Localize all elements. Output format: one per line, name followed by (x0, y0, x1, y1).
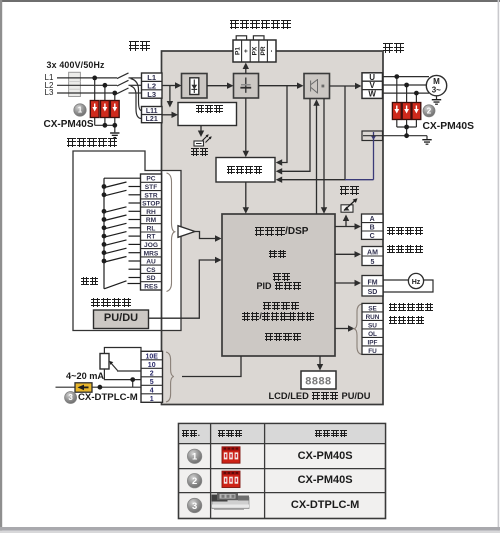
svg-text:RT: RT (147, 234, 156, 241)
svg-text:RH: RH (146, 209, 156, 216)
svg-text:3~: 3~ (432, 86, 441, 95)
svg-text:PC: PC (146, 176, 155, 183)
svg-text:5: 5 (150, 379, 154, 386)
svg-text:8888: 8888 (305, 377, 332, 389)
svg-text:3: 3 (192, 500, 197, 511)
svg-text:RUN: RUN (366, 314, 380, 321)
svg-text:1: 1 (192, 451, 197, 462)
svg-text:1: 1 (78, 106, 83, 115)
svg-text:-: - (269, 50, 276, 52)
svg-text:MRS: MRS (144, 250, 159, 257)
svg-text:STR: STR (144, 192, 157, 199)
svg-text:SE: SE (368, 305, 377, 312)
svg-text:2: 2 (150, 370, 154, 377)
svg-text:10: 10 (148, 362, 156, 369)
svg-text:CS: CS (146, 267, 156, 274)
svg-text:AM: AM (367, 250, 378, 257)
svg-text:L11: L11 (146, 108, 158, 115)
svg-text:5: 5 (371, 259, 375, 266)
svg-text:+: + (243, 49, 250, 53)
svg-text:4: 4 (150, 387, 154, 394)
svg-text:L3: L3 (147, 90, 156, 99)
svg-text:JOG: JOG (144, 242, 158, 249)
svg-text:OL: OL (368, 331, 377, 338)
svg-text:SU: SU (368, 322, 377, 329)
svg-text:3: 3 (68, 393, 73, 402)
svg-text:1: 1 (150, 396, 154, 403)
svg-text:FM: FM (367, 279, 377, 286)
svg-text:Hz: Hz (412, 279, 421, 286)
svg-text:RES: RES (144, 283, 158, 290)
svg-text:B: B (370, 225, 375, 232)
svg-text:2: 2 (192, 475, 197, 486)
svg-text:A: A (370, 216, 375, 223)
svg-text:C: C (370, 233, 375, 240)
svg-text:2: 2 (427, 107, 432, 116)
svg-text:10E: 10E (145, 353, 158, 360)
svg-text:SD: SD (368, 289, 378, 296)
svg-text:P1: P1 (234, 47, 241, 55)
svg-text:W: W (368, 90, 376, 99)
svg-text:PR: PR (260, 46, 267, 55)
svg-text:RL: RL (147, 225, 156, 232)
svg-text:L21: L21 (146, 116, 158, 123)
svg-text:FU: FU (368, 348, 377, 355)
svg-text:STF: STF (145, 184, 157, 191)
svg-text:SD: SD (146, 275, 155, 282)
svg-text:AU: AU (146, 259, 156, 266)
svg-text:IPF: IPF (368, 339, 378, 346)
svg-text:STOP: STOP (142, 201, 160, 208)
svg-text:PX: PX (252, 46, 259, 55)
svg-text:RM: RM (146, 217, 157, 224)
